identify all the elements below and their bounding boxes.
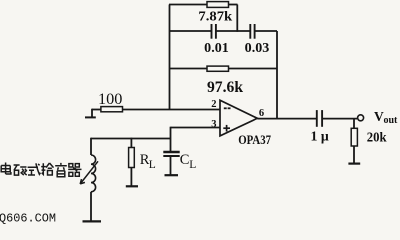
wire feedback right vertical down to output node (276, 31, 278, 119)
char 式 (28, 163, 41, 175)
ground below CL (165, 174, 179, 176)
svg-text:2: 2 (211, 99, 216, 110)
resistor RL (129, 138, 156, 186)
svg-text:C: C (180, 152, 190, 168)
ground below pickup (83, 220, 102, 222)
svg-text:0.03: 0.03 (245, 40, 270, 55)
capacitor CL (163, 152, 196, 175)
wire feedback left vertical bus (169, 5, 171, 111)
ground below RL (126, 185, 138, 187)
char 磁 (14, 165, 27, 175)
wire capacitor branch middle segment (216, 30, 250, 32)
char 电 (1, 163, 11, 175)
svg-text:L: L (149, 159, 156, 171)
svg-text:6: 6 (259, 108, 264, 119)
wire from 7.87k down to capacitor branch midpoint (236, 5, 238, 32)
svg-text:OPA37: OPA37 (238, 133, 271, 147)
label 电磁式拾音器 (hand-drawn strokes) (1, 163, 81, 177)
resistor 7.87k (169, 2, 238, 24)
svg-text:0.01: 0.01 (204, 40, 229, 55)
char 拾 (41, 163, 53, 175)
svg-text:Q606.COM: Q606.COM (0, 211, 56, 225)
resistor 20k (351, 119, 387, 164)
char 音 (55, 163, 67, 177)
char 器 (68, 164, 81, 177)
op-amp U1 OPA37 (211, 99, 271, 147)
svg-text:out: out (384, 115, 399, 126)
wire lower horizontal node wire (91, 138, 171, 140)
resistor 97.6k (170, 66, 278, 96)
svg-text:7.87k: 7.87k (198, 9, 232, 24)
svg-text:100: 100 (98, 91, 123, 108)
capacitor C 0.01 (204, 24, 229, 55)
wire capacitor branch right segment (255, 30, 277, 32)
svg-text:V: V (374, 109, 384, 124)
terminal Vout (358, 109, 398, 126)
ground below 20k (348, 163, 360, 165)
svg-text:1 μ: 1 μ (311, 128, 329, 143)
resistor 100 (98, 91, 123, 112)
ground at input resistor (85, 109, 101, 118)
svg-text:L: L (189, 159, 196, 171)
svg-text:97.6k: 97.6k (207, 79, 243, 96)
svg-text:20k: 20k (367, 131, 387, 146)
capacitor 1u output coupling (311, 110, 329, 143)
capacitor C 0.03 (245, 24, 270, 55)
wire pin-3 input wire (171, 127, 221, 152)
wire pin-2 input wire (123, 109, 221, 111)
wire capacitor branch left segment (170, 30, 212, 32)
pickup coil (electromagnetic pickup) (80, 138, 98, 221)
wire output wire from op-amp (257, 118, 317, 120)
wire output wire to terminal (322, 118, 357, 120)
